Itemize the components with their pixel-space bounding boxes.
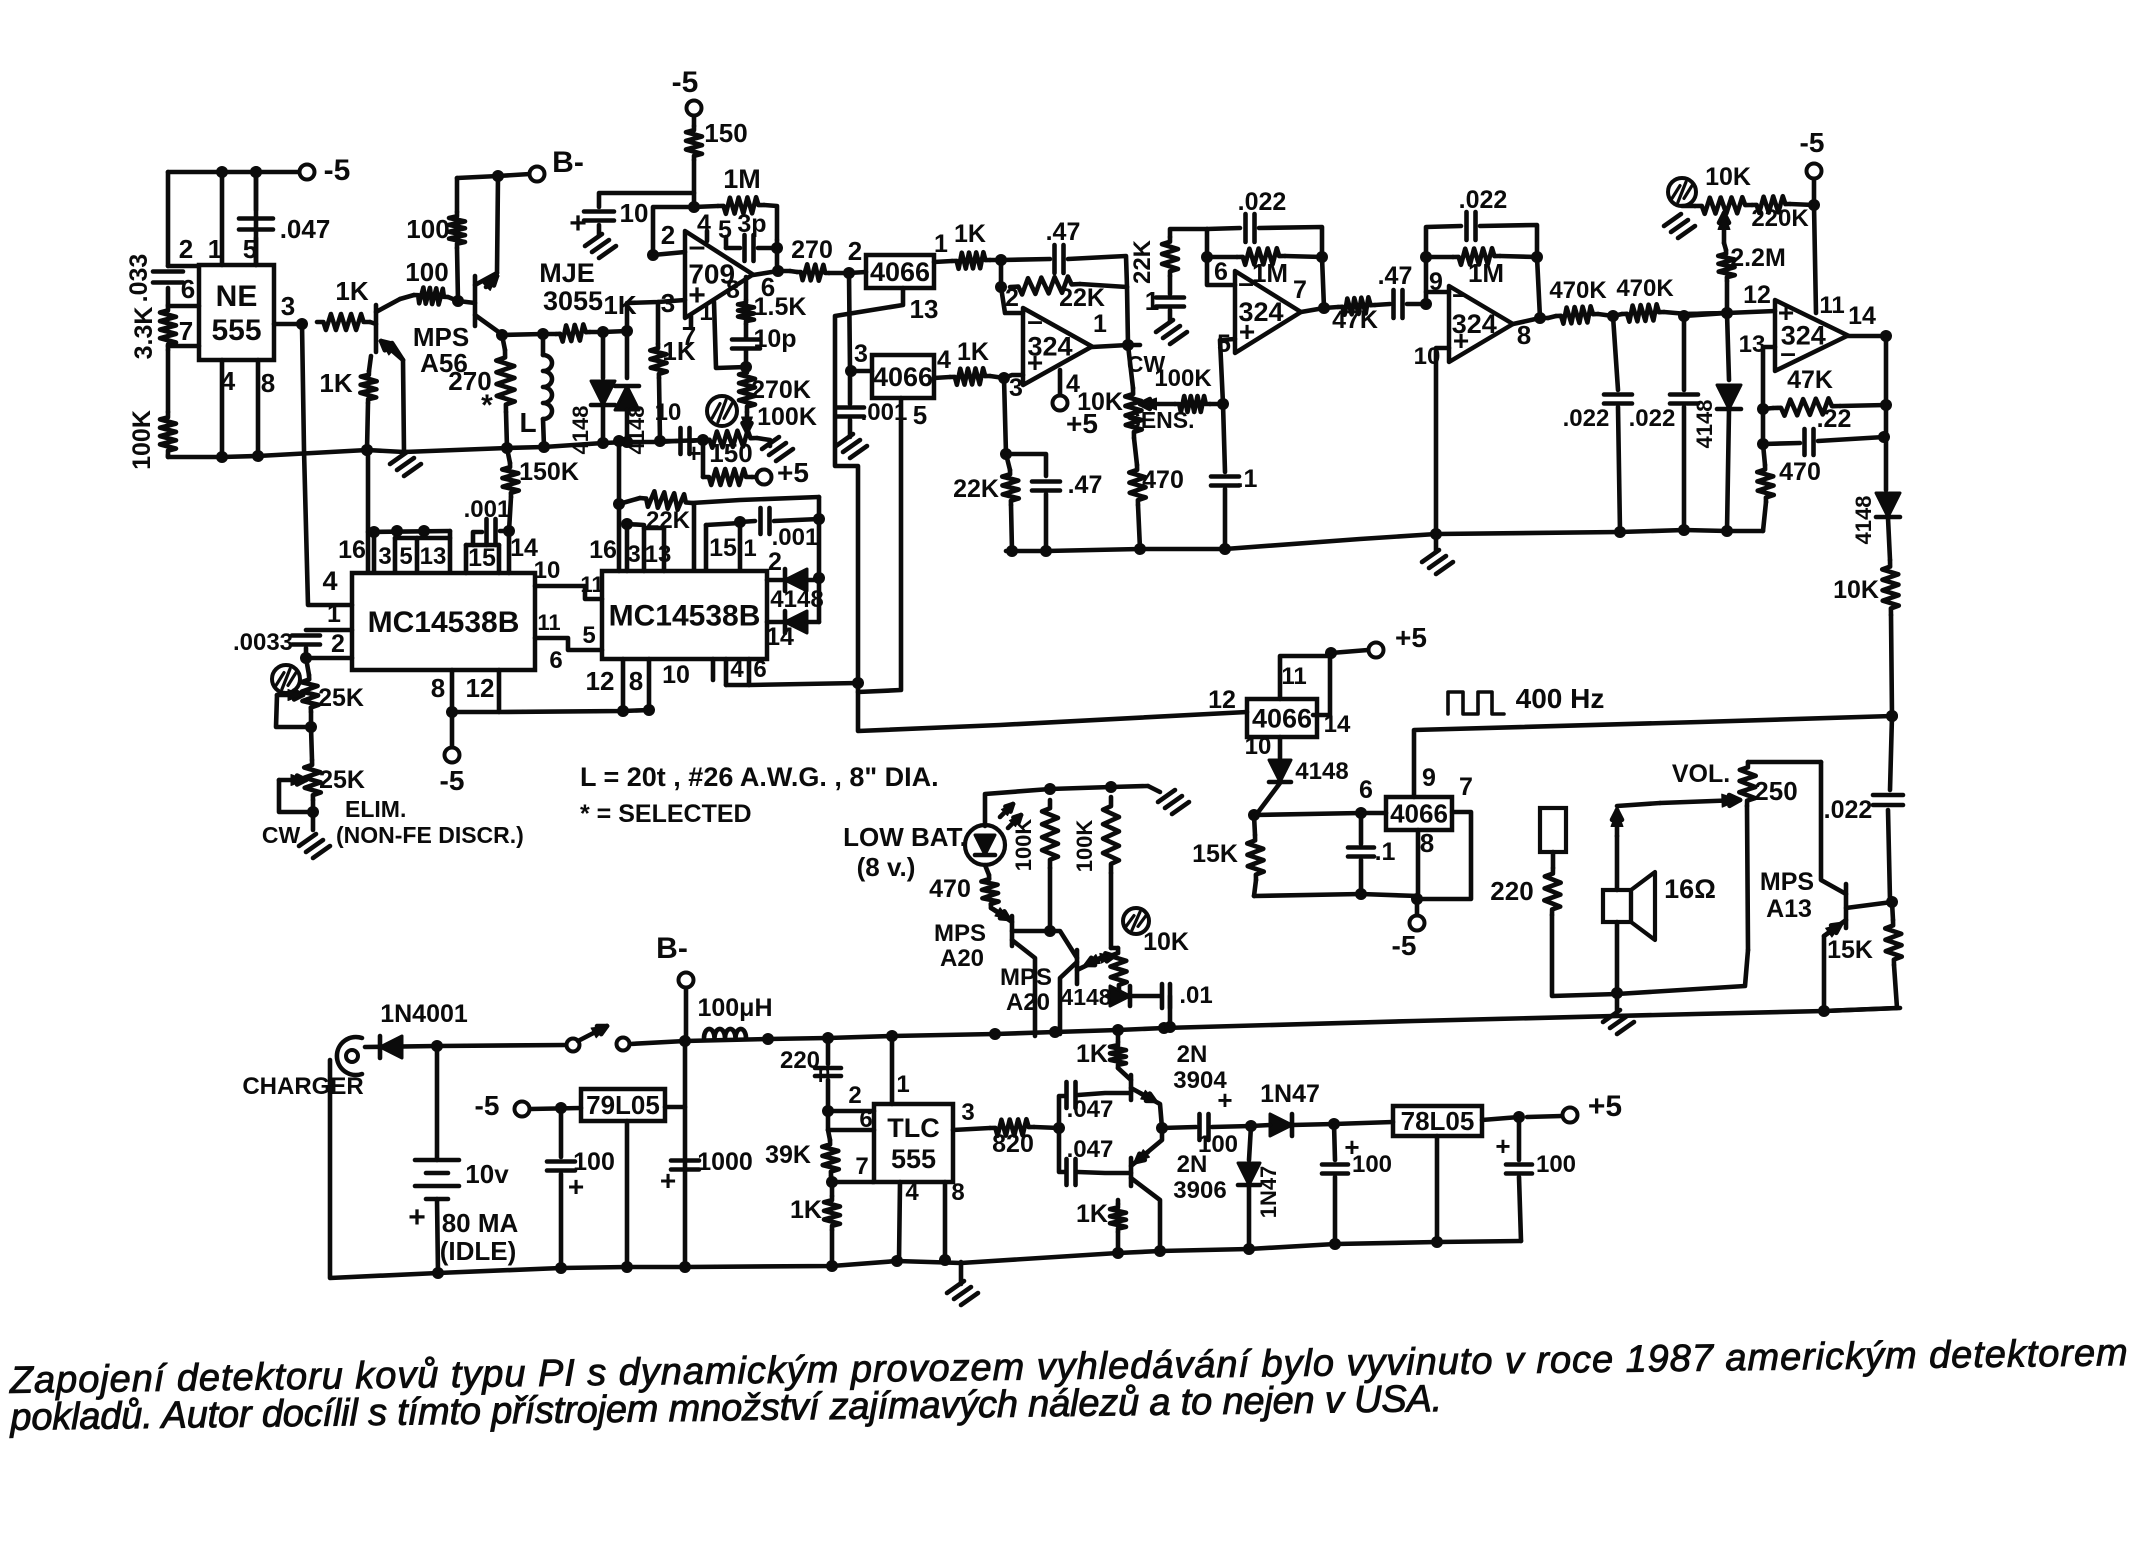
svg-text:14: 14: [766, 623, 794, 651]
wire U3 fb right: [1127, 287, 1128, 345]
pin 12 IC1: [497, 670, 502, 712]
wire 555 out to MC14538 pin4: [302, 324, 352, 605]
resistor 470 (U8): [1763, 444, 1765, 465]
capacitor 100 (pre-reg): [1334, 1124, 1335, 1160]
svg-text:4: 4: [221, 366, 236, 396]
svg-text:A20: A20: [940, 945, 984, 972]
transistor Q7 2N3906: [1129, 1158, 1134, 1186]
resistor 270 (709 out): [790, 271, 797, 272]
pin 8 TLC555: [943, 1182, 948, 1260]
svg-text:SENS.: SENS.: [1125, 407, 1194, 433]
svg-text:1K: 1K: [790, 1196, 822, 1224]
resistor 15K (A13): [1885, 920, 1902, 965]
capacitor .001 (IC1): [500, 529, 509, 534]
svg-text:15K: 15K: [1192, 840, 1238, 868]
svg-text:6: 6: [859, 1106, 872, 1133]
pin 1 NE555: [220, 172, 225, 265]
diode 4148 (out): [1876, 493, 1900, 517]
pot 25K b: [311, 727, 312, 760]
svg-text:6: 6: [753, 656, 766, 683]
svg-text:1000: 1000: [697, 1148, 753, 1176]
resistor 15K (4066D): [1254, 815, 1255, 835]
capacitor 100 (-5): [559, 1108, 564, 1157]
svg-text:1K: 1K: [957, 338, 989, 366]
terminal -5 (709): [687, 101, 702, 116]
svg-text:3: 3: [1009, 374, 1023, 402]
resistor 100K a (lowbat): [1042, 800, 1058, 868]
svg-text:1N4001: 1N4001: [380, 1000, 468, 1028]
wire to A56 base: [370, 322, 376, 324]
pin 8 709: [744, 277, 749, 300]
resistor 22K (U4 in): [1170, 229, 1207, 237]
capacitor .0033: [292, 633, 320, 638]
svg-text:10: 10: [534, 557, 561, 584]
svg-text:L: L: [519, 407, 536, 438]
svg-text:.047: .047: [1067, 1096, 1114, 1123]
svg-text:2: 2: [661, 220, 675, 250]
svg-text:3: 3: [378, 543, 391, 570]
wiper loop 25K b: [279, 778, 306, 783]
svg-text:4066: 4066: [873, 362, 933, 392]
svg-text:+5: +5: [777, 457, 809, 488]
svg-text:7: 7: [682, 321, 696, 351]
diode 4148 (osc): [1107, 994, 1119, 999]
op-amp U3 LM324: [1023, 308, 1092, 385]
resistor 470K b: [1622, 304, 1664, 321]
pin 8 IC1: [450, 670, 455, 712]
pin 7 TLC555: [832, 1180, 874, 1185]
capacitor 10 (pin1): [678, 428, 683, 454]
svg-text:6: 6: [1359, 776, 1373, 804]
transistor Q4 MPS A20: [1010, 916, 1015, 946]
svg-text:.47: .47: [1068, 471, 1103, 499]
capacitor .022 shunt a: [1613, 316, 1618, 390]
pin 6 4066D wire: [1254, 813, 1386, 815]
svg-text:25K: 25K: [319, 766, 365, 794]
svg-text:470K: 470K: [1549, 277, 1607, 304]
terminal +5 (709): [752, 475, 757, 480]
svg-text:1M: 1M: [723, 164, 761, 194]
svg-text:5: 5: [399, 543, 412, 570]
svg-text:220: 220: [1490, 876, 1533, 906]
resistor 100 vertical: [455, 178, 460, 212]
svg-text:1K: 1K: [1076, 1040, 1108, 1068]
loop U4 fb left: [1207, 229, 1235, 285]
svg-text:555: 555: [891, 1144, 936, 1174]
svg-text:4148: 4148: [568, 406, 593, 455]
pot 100K (709 offset): [703, 430, 757, 447]
svg-text:150K: 150K: [519, 458, 579, 486]
phone jack: [1540, 808, 1566, 852]
svg-text:MPS: MPS: [1760, 868, 1814, 896]
svg-text:.47: .47: [1378, 262, 1413, 290]
diode D1 4148: [601, 332, 606, 378]
svg-text:-5: -5: [475, 1090, 500, 1121]
pot wiper arrow 100K: [745, 412, 750, 432]
svg-text:10K: 10K: [1077, 388, 1123, 416]
ground (10K pot): [1664, 214, 1681, 226]
svg-text:10: 10: [1414, 343, 1441, 370]
pin 3 IC2 box: [625, 524, 630, 571]
svg-text:1.5K: 1.5K: [754, 293, 807, 321]
svg-text:ELIM.: ELIM.: [345, 796, 406, 822]
IC U6 MC14538B: [352, 573, 535, 670]
pin 13 U8: [1763, 347, 1775, 409]
wire 4066B pin5 down: [858, 398, 901, 692]
svg-text:100K: 100K: [1154, 365, 1212, 392]
svg-text:+: +: [686, 438, 701, 468]
svg-text:+: +: [1217, 1085, 1232, 1115]
svg-text:.001: .001: [464, 496, 511, 523]
capacitor .047 b: [1059, 1128, 1064, 1172]
svg-text:3055: 3055: [543, 286, 603, 316]
svg-text:–: –: [1238, 267, 1254, 298]
svg-text:4148: 4148: [624, 406, 649, 455]
svg-text:100K: 100K: [1072, 820, 1097, 873]
pin 3 TLC555: [953, 1128, 990, 1130]
svg-text:1: 1: [743, 535, 756, 562]
svg-text:2: 2: [331, 630, 345, 658]
svg-text:.1: .1: [1375, 838, 1396, 866]
pin bus IC1: [366, 450, 371, 571]
svg-text:.0033: .0033: [233, 629, 293, 656]
terminal B- (bottom): [679, 973, 694, 988]
svg-text:1K: 1K: [954, 220, 986, 248]
svg-text:TLC: TLC: [887, 1113, 939, 1143]
svg-text:11: 11: [1819, 292, 1844, 319]
pin 10/11 link: [535, 586, 602, 599]
svg-text:CHARGER: CHARGER: [242, 1073, 363, 1100]
svg-text:-5: -5: [324, 154, 351, 187]
wire U8 +in: [1687, 311, 1775, 314]
diode 1N47 shunt: [1249, 1126, 1251, 1160]
svg-text:100: 100: [1352, 1151, 1392, 1178]
capacitor 100 (coupling): [1162, 1127, 1196, 1128]
svg-text:220: 220: [780, 1047, 820, 1074]
svg-text:4: 4: [322, 566, 337, 596]
ground (A56): [390, 452, 407, 464]
pin 2 IC2 diode: [767, 578, 782, 583]
wire 79L05 out: [665, 1105, 685, 1110]
svg-text:–: –: [1452, 278, 1468, 309]
svg-text:2: 2: [768, 548, 782, 576]
svg-text:6: 6: [181, 274, 195, 304]
transistor Q1 MPS A56: [374, 305, 379, 352]
svg-text:8: 8: [431, 673, 445, 703]
pin 4 4066B: [934, 377, 950, 378]
svg-text:.01: .01: [1179, 982, 1212, 1009]
resistor 1K (4066A out): [952, 252, 990, 269]
resistor 270: [502, 335, 505, 350]
resistor 150K: [507, 448, 510, 463]
svg-text:2.2M: 2.2M: [1730, 244, 1786, 272]
svg-text:12: 12: [1743, 281, 1771, 309]
resistor 270K: [739, 367, 755, 412]
resistor 470 (SENS): [1134, 438, 1137, 465]
pin 8 IC2: [647, 659, 652, 710]
wire pin12 bus: [452, 710, 649, 712]
svg-text:5: 5: [718, 216, 732, 244]
pin 11/5 link: [535, 638, 602, 650]
pin 3 U3: [1004, 375, 1023, 378]
pin 15 IC2 box: [704, 525, 709, 570]
transistor Q5 MPS A20: [1075, 950, 1080, 984]
resistor 39K: [822, 1140, 839, 1176]
capacitor 10p: [744, 324, 749, 338]
resistor 100K b (lowbat): [1103, 797, 1119, 873]
wire -5 top rail: [168, 170, 300, 175]
B- rail: [630, 1008, 1900, 1044]
svg-text:MJE: MJE: [539, 258, 595, 288]
svg-text:12: 12: [1208, 686, 1236, 714]
resistor 1M (U5 fb): [1426, 255, 1453, 260]
wire left column: [166, 172, 171, 266]
svg-text:13: 13: [1739, 331, 1766, 358]
svg-text:5: 5: [1217, 330, 1231, 358]
speaker: [1615, 836, 1620, 890]
pin 13 IC1 box: [448, 531, 453, 571]
pin 4 U3 +5: [1058, 370, 1063, 395]
svg-text:1: 1: [208, 234, 222, 264]
terminal -5 (4066D): [1415, 899, 1420, 915]
svg-text:.47: .47: [1046, 218, 1081, 246]
charger jack: [337, 1037, 362, 1075]
svg-text:.022: .022: [1824, 796, 1873, 824]
pin 1 709: [714, 302, 746, 368]
terminal -5 (top-left): [300, 165, 315, 180]
resistor 100 horizontal: [400, 295, 414, 299]
wire charger down: [330, 1060, 438, 1278]
svg-text:1: 1: [1145, 286, 1159, 316]
wire MJE collector up: [497, 176, 498, 273]
svg-text:13: 13: [645, 541, 672, 568]
node A13 emitter: [1818, 1005, 1830, 1017]
svg-text:820: 820: [992, 1130, 1034, 1158]
pin 13 4066A: [835, 288, 1247, 731]
pin 2 IC1: [306, 656, 352, 661]
svg-text:100K: 100K: [128, 410, 156, 470]
capacitor .47 (coupling): [1391, 290, 1396, 318]
svg-text:(8 v.): (8 v.): [857, 852, 916, 882]
svg-text:8: 8: [951, 1179, 964, 1206]
resistor 1M (U4 fb): [1237, 248, 1285, 265]
ground (100K pot): [762, 437, 779, 449]
svg-text:400 Hz: 400 Hz: [1516, 683, 1605, 714]
speaker up arrow: [1615, 810, 1620, 836]
svg-text:.001: .001: [772, 524, 819, 551]
svg-text:16: 16: [338, 536, 366, 564]
pin 4 TLC555: [899, 1182, 900, 1261]
pin 1 IC1: [306, 628, 352, 633]
capacitor .1 (SENS): [1223, 404, 1225, 472]
svg-text:1: 1: [934, 230, 948, 258]
svg-text:.022: .022: [1629, 405, 1676, 432]
inductor 100uH: [704, 1029, 746, 1038]
svg-text:270: 270: [791, 236, 833, 264]
terminal +5 (4066C): [1325, 647, 1337, 659]
svg-text:2: 2: [848, 1082, 861, 1109]
resistor 100K SENS: [1175, 396, 1210, 412]
svg-text:B-: B-: [656, 932, 688, 965]
pin 14 U8: [1848, 334, 1886, 339]
trimmer symbol (10K pot): [1668, 178, 1696, 206]
pot 10K SENS: [1125, 388, 1142, 438]
resistor 470 (lowbat): [985, 865, 989, 875]
svg-text:100K: 100K: [757, 403, 817, 431]
svg-text:10: 10: [1245, 733, 1272, 760]
svg-text:10K: 10K: [1833, 576, 1879, 604]
svg-text:470: 470: [929, 875, 971, 903]
svg-text:MC14538B: MC14538B: [368, 606, 520, 639]
resistor 22K (IC2): [619, 498, 640, 504]
ground rail left: [168, 441, 676, 457]
svg-text:150: 150: [709, 438, 752, 468]
wire U5 fb right: [1537, 257, 1540, 318]
pin 4 NE555: [220, 360, 225, 457]
ground rail mid: [1006, 530, 1763, 551]
svg-text:.001: .001: [861, 399, 908, 426]
svg-text:100: 100: [406, 214, 449, 244]
svg-text:1N47: 1N47: [1260, 1080, 1320, 1108]
IC U7 MC14538B: [602, 571, 767, 659]
pin 1 TLC555: [890, 1036, 895, 1104]
pin 7 U4: [1301, 307, 1338, 312]
svg-text:22K: 22K: [1059, 284, 1105, 312]
resistor 1.5K: [738, 300, 754, 324]
pot 25K a: [306, 658, 309, 675]
resistor 1K (4066B out): [950, 368, 990, 385]
IC 4066 switch B: [851, 369, 872, 374]
wiper loop 25K a: [277, 693, 303, 698]
resistor 1K (555 out): [317, 314, 370, 330]
svg-text:8: 8: [629, 666, 643, 696]
resistor 2.2M: [1724, 243, 1726, 250]
svg-text:1: 1: [896, 1071, 909, 1098]
pin 10 U5: [1436, 348, 1449, 534]
svg-text:-5: -5: [1800, 127, 1825, 158]
wire B- top: [457, 174, 530, 178]
pin 3 NE555: [274, 322, 302, 327]
capacitor 10 electrolytic: [599, 193, 694, 207]
svg-text:CW: CW: [262, 822, 301, 848]
wire 1M/3p to output: [775, 240, 780, 271]
pin 14 IC1: [507, 531, 512, 573]
svg-text:14: 14: [1324, 711, 1351, 738]
svg-text:MC14538B: MC14538B: [609, 600, 761, 633]
svg-text:10K: 10K: [1143, 928, 1189, 956]
LED low bat: [965, 825, 1005, 865]
svg-text:4148: 4148: [1692, 400, 1717, 449]
op-amp U5 LM324: [1449, 286, 1513, 362]
svg-text:1K: 1K: [1076, 1200, 1108, 1228]
svg-text:100: 100: [1198, 1131, 1238, 1158]
svg-text:.022: .022: [1459, 186, 1508, 214]
resistor 1K (3906): [1110, 1204, 1126, 1232]
wire gnd rail to pot: [676, 440, 703, 441]
svg-text:79L05: 79L05: [586, 1090, 660, 1120]
resistor 1K (3904): [1116, 1030, 1121, 1042]
svg-text:A13: A13: [1766, 895, 1812, 923]
svg-text:8: 8: [726, 276, 740, 304]
svg-text:22K: 22K: [1129, 239, 1156, 284]
svg-text:.022: .022: [1238, 188, 1287, 216]
svg-text:3: 3: [961, 1099, 974, 1126]
pin 7 NE555: [168, 344, 199, 349]
svg-text:LOW BAT.: LOW BAT.: [843, 822, 967, 852]
svg-text:14: 14: [1848, 302, 1876, 330]
svg-text:6: 6: [1214, 258, 1228, 286]
wire VOL wiper: [1617, 803, 1660, 806]
terminal +5 (78L05): [1527, 1116, 1562, 1117]
node MJE emitter: [496, 329, 508, 341]
svg-text:3: 3: [854, 340, 868, 368]
svg-text:80 MA: 80 MA: [442, 1208, 519, 1238]
svg-text:100μH: 100μH: [697, 994, 772, 1022]
wire 709 out to 4066B: [849, 273, 850, 371]
ground (25K): [299, 834, 316, 846]
pin 2 NE555: [168, 264, 199, 269]
svg-text:MPS: MPS: [934, 920, 986, 947]
wire emitter node: [500, 333, 556, 335]
svg-text:+: +: [1453, 325, 1469, 356]
svg-text:.022: .022: [1563, 405, 1610, 432]
svg-text:(NON-FE DISCR.): (NON-FE DISCR.): [336, 822, 524, 848]
led top wire: [985, 786, 1148, 826]
svg-text:25K: 25K: [318, 684, 364, 712]
pin 15 IC1 box: [464, 545, 469, 573]
pot 10K (osc): [1110, 948, 1127, 990]
resistor 1K (709 +in): [650, 344, 667, 378]
wire wiper to U4 +in: [1220, 339, 1235, 404]
svg-text:16: 16: [589, 536, 617, 564]
svg-text:+5: +5: [1588, 1090, 1622, 1123]
svg-text:.047: .047: [1067, 1136, 1114, 1163]
svg-text:.22: .22: [1817, 405, 1852, 433]
pin 6 NE555: [168, 304, 199, 309]
svg-text:100: 100: [1536, 1151, 1576, 1178]
trimmer symbol 25K a: [272, 665, 300, 693]
wiper arrow (10K osc): [1102, 956, 1114, 958]
svg-text:1M: 1M: [1468, 258, 1504, 288]
resistor 1M feedback 709: [653, 206, 718, 255]
diode 4148 (4066C): [1269, 760, 1291, 782]
svg-text:4066: 4066: [1390, 799, 1448, 829]
wire charger to switch: [365, 1045, 566, 1047]
op-amp U2 709: [685, 231, 753, 318]
pin 3 IC1 box: [372, 532, 377, 571]
svg-text:-5: -5: [672, 66, 699, 99]
svg-text:8: 8: [1420, 828, 1434, 858]
svg-text:1: 1: [699, 299, 712, 326]
resistor 3.3K: [160, 305, 176, 350]
resistor 220K: [1752, 196, 1790, 213]
svg-text:5: 5: [582, 622, 595, 649]
capacitor .047: [254, 172, 259, 210]
pin 8 NE555: [256, 360, 261, 456]
svg-text:47K: 47K: [1332, 306, 1378, 334]
wiper arrow SENS: [1140, 402, 1175, 407]
svg-text:16Ω: 16Ω: [1664, 874, 1716, 904]
svg-text:150: 150: [704, 118, 747, 148]
svg-text:470K: 470K: [1616, 275, 1674, 302]
capacitor .01: [1160, 984, 1165, 1008]
wire U4 fb right: [1322, 257, 1324, 308]
svg-text:NE: NE: [216, 280, 258, 313]
capacitor .033: [153, 269, 183, 274]
wire 100Ka to A20 base: [1048, 868, 1053, 931]
diode D2 4148: [625, 331, 630, 378]
terminal -5 (IC1): [450, 712, 455, 747]
